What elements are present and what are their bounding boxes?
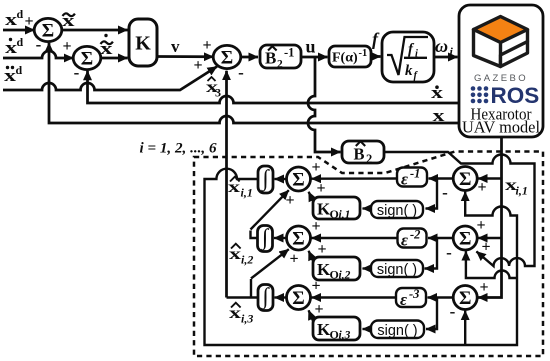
wire xddot^d input with two hops (3, 67, 217, 91)
svg-text:sign( ): sign( ) (377, 323, 417, 339)
svg-text:+: + (285, 192, 294, 209)
svg-text:Σ: Σ (459, 169, 471, 190)
svg-text:x: x (433, 106, 446, 125)
gazebo logo fold face (501, 42, 528, 67)
wire S3 to B2hat inverse block (241, 56, 259, 59)
summing junction S3R (453, 286, 477, 310)
svg-text:-: - (74, 63, 80, 82)
wire v from K to S3 (157, 55, 213, 58)
ROS logo dots (471, 86, 489, 103)
svg-text:k: k (405, 63, 413, 79)
svg-text:+: + (311, 159, 320, 176)
svg-text:d: d (16, 63, 23, 77)
svg-text:Σ: Σ (292, 170, 304, 191)
gazebo logo left face (474, 30, 501, 67)
wire x feedback from UAV model (49, 43, 459, 123)
svg-text:sign( ): sign( ) (377, 262, 417, 278)
block K_Oi1 (313, 197, 360, 219)
svg-text:i,3: i,3 (339, 330, 351, 342)
svg-text:-1: -1 (359, 48, 368, 59)
summing junction S2M (287, 226, 311, 250)
wire S3M to I3 (275, 296, 287, 298)
svg-text:+: + (317, 241, 326, 258)
wire xhat3 trunk up to S3 (225, 71, 228, 298)
svg-text:+: + (24, 13, 33, 30)
block epsilon^-3 (396, 288, 426, 307)
block epsilon^-1 (397, 168, 427, 187)
svg-text:x: x (229, 305, 241, 322)
block epsilon^-2 (398, 229, 427, 248)
wire trunk branch to S2R (478, 237, 502, 239)
svg-text:+: + (311, 218, 320, 235)
wire x^d input to summing junction S1 (3, 29, 35, 32)
svg-text:+: + (481, 239, 490, 256)
svg-text:-: - (238, 63, 244, 82)
svg-text:-: - (450, 302, 456, 321)
summing junction S1 (34, 18, 62, 41)
svg-text:O: O (330, 268, 339, 282)
svg-text:x: x (228, 179, 240, 196)
wire xtilde from S1 to K (62, 29, 128, 32)
svg-text:i = 1, 2, ..., 6: i = 1, 2, ..., 6 (140, 141, 217, 157)
svg-text:x: x (229, 246, 241, 263)
wire rail branch to S2R minus (466, 251, 517, 278)
svg-text:-3: -3 (409, 287, 419, 301)
svg-text:+: + (62, 38, 71, 55)
svg-text:+: + (476, 217, 485, 234)
wire omega_i from sqrt block to UAV model (434, 56, 458, 59)
svg-text:+: + (477, 179, 486, 196)
svg-text:O: O (330, 328, 339, 342)
wire epsilon2 to S2M (312, 237, 398, 239)
svg-text:v: v (171, 37, 180, 56)
wire u branch down to B2hat with hops (308, 57, 341, 152)
svg-text:B: B (265, 49, 276, 68)
wire xhat_i1 rail feedback (205, 169, 518, 345)
svg-text:+: + (202, 37, 211, 54)
gazebo logo top face (474, 17, 528, 43)
svg-text:ε: ε (400, 290, 407, 309)
wire rail branch to S3R minus (464, 311, 466, 345)
wire epsilon3 to S3M (312, 296, 397, 298)
svg-text:ε: ε (401, 170, 408, 189)
svg-text:+: + (193, 57, 202, 74)
svg-text:K: K (135, 33, 151, 55)
svg-text:sign( ): sign( ) (377, 203, 417, 219)
wire K_O1 to S1M (309, 192, 314, 202)
svg-text:-: - (442, 183, 448, 202)
gazebo logo right edge (526, 30, 529, 42)
block sign3 (371, 321, 424, 339)
svg-text:d: d (17, 35, 24, 49)
svg-text:Σ: Σ (81, 49, 93, 70)
svg-text:O: O (330, 207, 339, 221)
wire sign1 to K_O1 (363, 207, 372, 209)
svg-text:Σ: Σ (221, 48, 233, 69)
svg-text:f: f (372, 29, 380, 49)
wire K_O2 to S2M (309, 251, 314, 262)
wire B2hat output to S2R (384, 152, 535, 266)
svg-text:-2: -2 (410, 228, 420, 242)
summing junction S3M (287, 286, 311, 310)
integrator block I2 (258, 226, 273, 252)
svg-text:Σ: Σ (459, 229, 471, 250)
svg-text:+: + (479, 279, 488, 296)
svg-text:Σ: Σ (42, 21, 54, 42)
svg-text:i,1: i,1 (339, 209, 351, 221)
wire S1M to I1 (275, 178, 287, 180)
block K_Oi3 (313, 317, 360, 340)
wire trunk branch to S1R (478, 177, 502, 179)
wire xdot feedback from UAV model (88, 71, 460, 103)
svg-text:-1: -1 (410, 167, 420, 181)
integrator block I1 (258, 166, 273, 193)
svg-text:i,1: i,1 (516, 184, 528, 198)
block sqrt(f_i/k_f) (382, 32, 434, 82)
block sign2 (371, 260, 423, 277)
wire xdot^d input with hop to summing junction S2 (3, 51, 73, 58)
wire u from B2hat inverse to F block (301, 56, 328, 59)
block Hexarotor UAV model (Gazebo ROS) (459, 5, 543, 137)
svg-text:i,2: i,2 (241, 253, 253, 267)
wire S2R to epsilon2 (428, 237, 453, 239)
wire x_i1 trunk from UAV model to S3R (478, 137, 502, 298)
summing junction S1M (287, 167, 311, 191)
wire xtildedot from S2 to K (101, 57, 128, 60)
svg-text:d: d (17, 7, 24, 21)
svg-text:Σ: Σ (292, 229, 304, 250)
wire S3R to epsilon3 (428, 296, 454, 298)
svg-text:Σ: Σ (459, 288, 471, 309)
wire epsilon1 to S1M (312, 177, 398, 180)
svg-text:i,1: i,1 (241, 186, 253, 200)
wire sign2 to K_O2 (363, 267, 372, 269)
svg-text:ω: ω (435, 36, 448, 56)
svg-text:-: - (36, 35, 42, 54)
summing junction S2R (453, 226, 477, 250)
dashed observer boundary box (194, 152, 543, 357)
svg-text:3: 3 (215, 86, 221, 100)
wire xhat_i3 diagonal to S2M (251, 249, 289, 278)
svg-text:+: + (311, 278, 320, 295)
svg-text:ε: ε (401, 231, 408, 250)
wire K_O3 to S3M (309, 310, 314, 322)
wire riser to sign1 (426, 179, 438, 209)
block F(alpha) inverse (329, 46, 371, 67)
integrator block I3 (258, 285, 273, 311)
svg-text:B: B (354, 145, 365, 164)
wire S1R to epsilon1 (429, 177, 454, 179)
svg-text:F(α): F(α) (332, 51, 358, 66)
block B2hat inverse (260, 45, 301, 68)
wire S2M to I2 (274, 237, 286, 239)
svg-text:+: + (314, 301, 323, 318)
svg-text:Σ: Σ (292, 288, 304, 309)
svg-text:i,2: i,2 (339, 270, 351, 282)
wire riser to sign2 (425, 238, 438, 269)
svg-text:2: 2 (366, 152, 372, 166)
wire sign3 to K_O3 (363, 328, 372, 330)
svg-text:-: - (446, 243, 452, 262)
summing junction S1R (453, 167, 477, 191)
summing junction S2 (73, 46, 101, 69)
svg-text:-1: -1 (284, 46, 294, 60)
block sign1 (371, 201, 423, 218)
wire riser to sign3 (426, 298, 437, 330)
block K (129, 19, 157, 66)
svg-text:u: u (306, 37, 316, 57)
block B2hat (342, 141, 384, 163)
svg-text:+: + (289, 251, 298, 268)
summing junction S3 (213, 45, 241, 68)
svg-text:i,3: i,3 (241, 312, 253, 326)
block K_Oi2 (313, 257, 360, 280)
wire xhat_i2 diagonal to S1M (251, 190, 289, 229)
svg-text:+: + (316, 180, 325, 197)
wire xhat_i2 from I2 (251, 231, 258, 239)
wire f from F block to sqrt block (371, 55, 381, 58)
wire xhat_i3 from I3 with riser branch (227, 279, 259, 298)
svg-text:UAV model: UAV model (462, 118, 540, 137)
svg-text:2: 2 (277, 59, 283, 71)
